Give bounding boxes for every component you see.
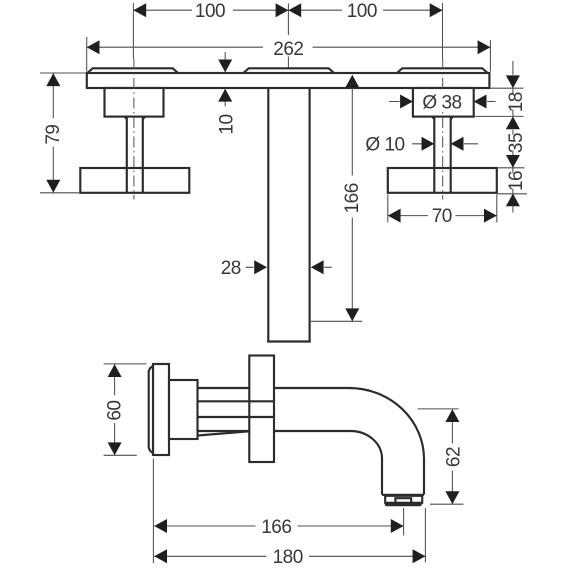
side view tube top edge [198,387,351,389]
svg-text:62: 62 [443,447,464,467]
svg-text:28: 28 [221,258,241,279]
extension line spout outer [424,508,426,563]
spout bend inner [351,431,383,495]
extension line aerator center [403,508,405,536]
side view tube inner lines [198,401,275,417]
svg-text:180: 180 [273,547,303,568]
side view tube bottom edge [198,430,352,432]
dimension diameter 38 [389,92,496,113]
aerator ring [385,496,422,503]
right side dimension chain line [512,61,514,213]
left handle shaft through crossbar [127,168,143,193]
spout front view [268,88,309,342]
svg-text:35: 35 [506,133,527,153]
svg-text:70: 70 [432,206,452,227]
extension line 262 right [489,40,491,72]
extension line middle hole center [287,4,289,68]
dimension 35 [506,133,527,168]
dimension 18 [506,75,527,129]
right handle shaft through crossbar [434,168,450,193]
dimension 262 [87,39,491,60]
svg-text:10: 10 [216,114,237,134]
svg-text:Ø 38: Ø 38 [422,92,461,113]
dimension 166 front view [311,75,363,321]
svg-text:60: 60 [104,401,125,421]
aerator inner tab [395,498,411,503]
svg-text:Ø 10: Ø 10 [365,134,404,155]
plate (mounting plate front view) [87,73,490,88]
right handle centerline [442,59,444,200]
svg-text:18: 18 [506,92,527,112]
left handle stem [105,88,164,117]
dimension 60 [104,364,147,455]
left handle crossbar [80,168,189,193]
dimension 180 [154,547,425,568]
side view flange [249,356,274,463]
side view taper diagonal [198,431,250,435]
dimension 100 left [133,1,288,22]
dimension 166 bottom [154,517,403,538]
side view wall plate front face [149,366,153,453]
left handle shaft [125,117,145,193]
dimension 70 [388,195,497,228]
extension line right hole center [442,3,444,59]
svg-text:79: 79 [43,125,64,145]
dimension 79 [40,73,86,193]
spout front bottom edge [267,340,311,342]
spout bend outer [349,388,424,495]
right handle stem [413,88,474,117]
dimension 28 spout width [221,258,332,279]
right handle shaft [432,117,453,193]
extension line wall face [152,459,154,564]
right handle crossbar [388,168,497,193]
right side dimension chain ticks [474,88,527,194]
svg-text:100: 100 [347,1,377,22]
dimension 100 right [288,1,442,22]
escutcheon top middle [243,68,334,73]
side view adapter cylinder [169,380,198,439]
side view wall plate [153,364,169,455]
svg-text:262: 262 [273,39,303,60]
aerator bottom band [385,502,422,506]
svg-text:166: 166 [261,517,291,538]
escutcheon top left [87,68,178,73]
extension line 262 left [86,37,88,72]
spout end [382,494,424,496]
dimension diameter 10 [365,134,478,155]
escutcheon top right [397,68,488,73]
extension line left hole center [132,3,134,59]
dimension 16 [506,171,527,206]
dimension 10 plate thickness [216,52,237,135]
svg-text:16: 16 [506,171,527,191]
dimension 62 [418,409,465,504]
svg-text:166: 166 [342,183,363,213]
left handle centerline [133,59,135,200]
svg-text:100: 100 [195,1,225,22]
